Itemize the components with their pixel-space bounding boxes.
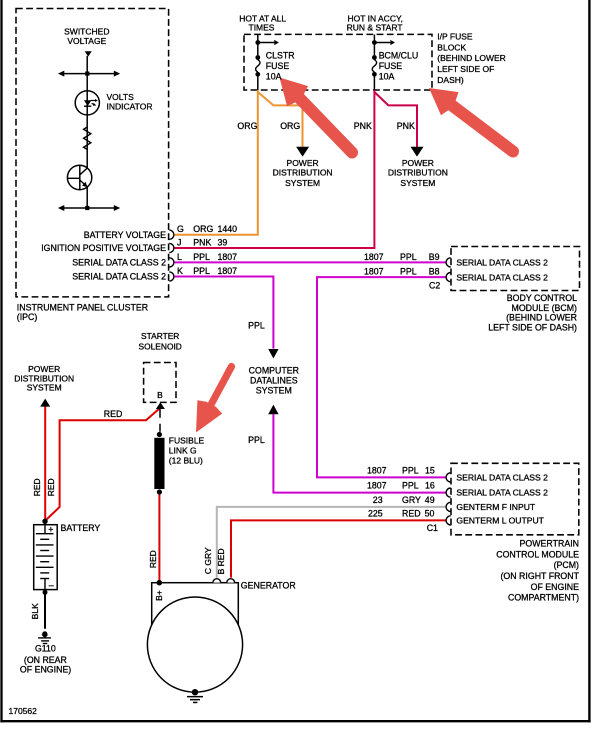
svg-text:DASH): DASH) [437, 75, 464, 85]
svg-text:1807: 1807 [364, 252, 384, 262]
svg-text:SERIAL DATA CLASS 2: SERIAL DATA CLASS 2 [456, 258, 548, 268]
svg-text:G: G [177, 224, 184, 234]
svg-text:BODY CONTROL: BODY CONTROL [507, 293, 577, 303]
svg-text:TIMES: TIMES [249, 22, 275, 32]
svg-text:BATTERY VOLTAGE: BATTERY VOLTAGE [84, 230, 166, 240]
svg-text:RED: RED [148, 550, 158, 568]
svg-text:PPL: PPL [402, 481, 419, 491]
svg-text:K: K [177, 266, 183, 276]
svg-text:SWITCHED: SWITCHED [64, 26, 109, 36]
svg-text:J: J [177, 238, 181, 248]
svg-text:1807: 1807 [218, 266, 238, 276]
svg-text:RUN & START: RUN & START [347, 22, 403, 32]
svg-text:B: B [157, 390, 163, 400]
svg-text:PNK: PNK [354, 121, 372, 131]
svg-text:PPL: PPL [193, 252, 210, 262]
svg-text:PPL: PPL [402, 465, 419, 475]
svg-text:SYSTEM: SYSTEM [400, 178, 435, 188]
svg-text:16: 16 [425, 481, 435, 491]
svg-text:SYSTEM: SYSTEM [27, 383, 62, 393]
svg-text:PPL: PPL [400, 267, 417, 277]
svg-text:DATALINES: DATALINES [250, 376, 298, 386]
svg-text:(IPC): (IPC) [17, 312, 38, 322]
svg-text:B+: B+ [154, 590, 164, 601]
svg-text:I/P FUSE: I/P FUSE [437, 31, 473, 41]
svg-text:PPL: PPL [248, 435, 265, 445]
svg-text:LINK G: LINK G [169, 445, 197, 455]
svg-text:SERIAL DATA CLASS 2: SERIAL DATA CLASS 2 [456, 473, 548, 483]
svg-text:OF ENGINE): OF ENGINE) [20, 665, 71, 675]
svg-text:RED: RED [46, 478, 56, 496]
svg-text:DISTRIBUTION: DISTRIBUTION [388, 168, 448, 178]
svg-text:10A: 10A [379, 71, 395, 81]
svg-text:OF ENGINE: OF ENGINE [531, 582, 580, 592]
svg-text:GENTERM L OUTPUT: GENTERM L OUTPUT [456, 516, 544, 526]
svg-text:1807: 1807 [364, 267, 384, 277]
svg-text:15: 15 [425, 465, 435, 475]
svg-text:(BEHIND LOWER: (BEHIND LOWER [506, 313, 577, 323]
svg-text:C1: C1 [427, 523, 438, 533]
svg-text:1807: 1807 [367, 465, 387, 475]
svg-text:STARTER: STARTER [141, 331, 179, 341]
svg-text:1440: 1440 [218, 224, 238, 234]
svg-text:PPL: PPL [400, 252, 417, 262]
svg-text:DISTRIBUTION: DISTRIBUTION [273, 168, 333, 178]
svg-text:10A: 10A [266, 71, 282, 81]
svg-text:CLSTR: CLSTR [266, 51, 295, 61]
svg-text:225: 225 [368, 508, 383, 518]
svg-text:LEFT SIDE OF DASH): LEFT SIDE OF DASH) [488, 323, 577, 333]
svg-text:BLK: BLK [30, 603, 40, 619]
svg-text:PPL: PPL [248, 320, 265, 330]
svg-text:POWERTRAIN: POWERTRAIN [520, 539, 579, 549]
svg-text:GENERATOR: GENERATOR [241, 580, 296, 590]
svg-text:SERIAL DATA CLASS 2: SERIAL DATA CLASS 2 [456, 272, 548, 282]
svg-text:ORG: ORG [280, 121, 300, 131]
svg-text:GRY: GRY [402, 495, 421, 505]
svg-text:39: 39 [218, 238, 228, 248]
svg-text:FUSIBLE: FUSIBLE [169, 435, 205, 445]
svg-text:49: 49 [425, 495, 435, 505]
svg-text:SERIAL DATA CLASS 2: SERIAL DATA CLASS 2 [456, 488, 548, 498]
svg-text:SERIAL DATA CLASS 2: SERIAL DATA CLASS 2 [72, 272, 166, 282]
svg-text:B RED: B RED [216, 548, 226, 574]
svg-text:INSTRUMENT PANEL CLUSTER: INSTRUMENT PANEL CLUSTER [17, 303, 148, 313]
svg-text:PNK: PNK [397, 121, 415, 131]
svg-text:1807: 1807 [218, 252, 238, 262]
svg-text:1807: 1807 [367, 481, 387, 491]
svg-text:VOLTAGE: VOLTAGE [67, 36, 106, 46]
svg-text:BATTERY: BATTERY [61, 523, 101, 533]
svg-text:ORG: ORG [237, 121, 257, 131]
svg-text:G110: G110 [35, 644, 56, 654]
svg-text:GENTERM F INPUT: GENTERM F INPUT [456, 502, 536, 512]
svg-text:CONTROL MODULE: CONTROL MODULE [496, 549, 579, 559]
svg-text:SYSTEM: SYSTEM [256, 386, 292, 396]
svg-text:–: – [49, 580, 54, 590]
svg-text:POWER: POWER [287, 158, 319, 168]
svg-text:B8: B8 [429, 267, 440, 277]
svg-text:170562: 170562 [9, 706, 38, 716]
svg-text:SERIAL DATA CLASS 2: SERIAL DATA CLASS 2 [72, 258, 166, 268]
svg-text:BCM/CLU: BCM/CLU [379, 51, 419, 61]
svg-text:50: 50 [425, 508, 435, 518]
svg-text:LEFT SIDE OF: LEFT SIDE OF [437, 64, 494, 74]
svg-text:SYSTEM: SYSTEM [285, 178, 320, 188]
svg-text:(12 BLU): (12 BLU) [169, 455, 203, 465]
svg-text:BLOCK: BLOCK [437, 42, 466, 52]
svg-text:PNK: PNK [193, 238, 211, 248]
svg-text:RED: RED [402, 508, 421, 518]
svg-text:IGNITION POSITIVE VOLTAGE: IGNITION POSITIVE VOLTAGE [41, 243, 166, 253]
svg-text:VOLTS: VOLTS [107, 92, 135, 102]
svg-text:RED: RED [32, 478, 42, 496]
svg-text:(PCM): (PCM) [554, 560, 579, 570]
svg-text:FUSE: FUSE [266, 61, 290, 71]
svg-text:+: + [48, 524, 53, 534]
svg-text:COMPUTER: COMPUTER [249, 366, 299, 376]
svg-text:MODULE (BCM): MODULE (BCM) [512, 303, 578, 313]
svg-text:(ON REAR: (ON REAR [24, 655, 67, 665]
svg-text:SOLENOID: SOLENOID [139, 342, 182, 352]
svg-text:C GRY: C GRY [203, 547, 213, 574]
svg-text:INDICATOR: INDICATOR [107, 102, 153, 112]
svg-text:(BEHIND LOWER: (BEHIND LOWER [437, 53, 505, 63]
svg-text:ORG: ORG [193, 224, 213, 234]
svg-text:23: 23 [373, 495, 383, 505]
svg-text:L: L [177, 252, 182, 262]
svg-text:(ON RIGHT FRONT: (ON RIGHT FRONT [500, 571, 579, 581]
svg-text:POWER: POWER [402, 158, 434, 168]
svg-text:C2: C2 [429, 281, 440, 291]
svg-text:COMPARTMENT): COMPARTMENT) [508, 593, 579, 603]
svg-text:FUSE: FUSE [379, 61, 403, 71]
svg-text:B9: B9 [429, 252, 440, 262]
svg-text:PPL: PPL [193, 266, 210, 276]
svg-text:RED: RED [104, 409, 123, 419]
